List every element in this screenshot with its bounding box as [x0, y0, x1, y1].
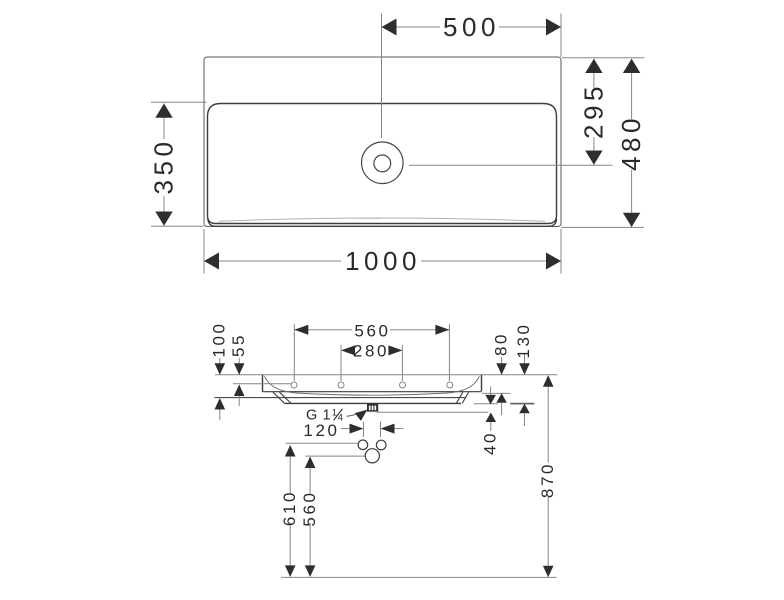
- svg-text:295: 295: [579, 82, 609, 139]
- svg-text:610: 610: [280, 490, 299, 526]
- svg-text:100: 100: [210, 321, 229, 357]
- svg-text:55: 55: [229, 333, 248, 357]
- svg-text:80: 80: [492, 332, 511, 356]
- svg-text:500: 500: [443, 12, 500, 42]
- svg-text:40: 40: [481, 431, 500, 455]
- svg-text:1000: 1000: [345, 246, 421, 276]
- svg-text:4: 4: [338, 413, 343, 424]
- svg-text:480: 480: [616, 114, 646, 171]
- svg-text:130: 130: [514, 322, 533, 358]
- svg-text:560: 560: [300, 490, 319, 526]
- svg-text:G 1: G 1: [306, 408, 331, 424]
- svg-text:560: 560: [354, 322, 390, 341]
- svg-text:120: 120: [303, 421, 339, 440]
- svg-text:280: 280: [353, 342, 389, 361]
- svg-text:350: 350: [149, 138, 179, 195]
- svg-text:870: 870: [538, 462, 557, 498]
